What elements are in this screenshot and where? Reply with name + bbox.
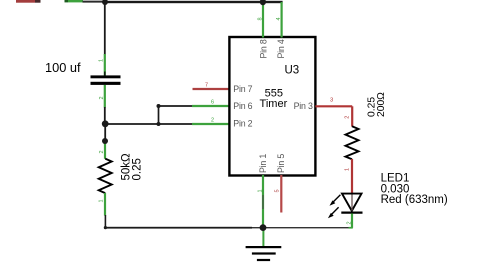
svg-text:0.25: 0.25 [131,158,143,180]
label U3 [285,64,300,76]
wire: bottom rail left [105,227,252,229]
value label 0.25 200Ω (rotated) [366,92,387,117]
pin number 7 [205,83,208,89]
svg-text:2: 2 [99,96,105,99]
pin number 1 of R2 (rotated) [344,168,350,171]
pin number 1 of R1 [98,199,104,202]
svg-text:Pin 2: Pin 2 [233,119,252,129]
svg-text:1: 1 [98,59,104,62]
svg-text:2: 2 [99,150,105,153]
LED cathode bar [341,212,362,214]
pin label Pin 2 [233,119,252,129]
pin number 1 [257,189,263,192]
pin label Pin 5 (rotated) [276,154,286,173]
svg-text:Pin 1: Pin 1 [258,154,268,173]
U3 pin 2 leg (green) [192,123,229,125]
svg-text:4: 4 [276,17,282,20]
svg-text:7: 7 [205,83,208,89]
node: ground junction [260,224,267,231]
pin number 5 [275,189,281,192]
wire: top-left red stub (cut off) [16,0,41,3]
pin label Pin 8 (rotated) [258,39,268,58]
pin label Pin 7 [233,84,252,94]
pin number 2 of R2 (rotated) [344,116,350,119]
svg-text:Pin 4: Pin 4 [276,39,286,58]
pin number 2 of R1 [99,150,105,153]
svg-text:Pin 6: Pin 6 [233,101,252,111]
wire: top power rail [104,1,283,3]
op-amp/IC U3 box [229,37,315,176]
svg-text:Pin 3: Pin 3 [294,101,313,111]
svg-text:2: 2 [211,118,214,124]
pin number 6 [211,100,214,106]
svg-text:Pin 5: Pin 5 [276,154,286,173]
U3 pin 5 leg (red, bottom, unconnected) [280,175,282,213]
pin label Pin 4 (rotated) [276,39,286,58]
pin number 4 [276,17,282,20]
resistor R1 pin 1 leg (green) [104,193,106,216]
wire: junction A to resistor top [104,124,106,141]
U3 pin 3 leg / wire to R2 (red) [315,106,352,126]
pin number 2 of capacitor [99,96,105,99]
U3 pin 8 leg (green, top) [262,2,264,38]
wire: vertical bend up at x158.5 [158,106,160,124]
pin label Pin 3 [294,101,313,111]
capacitor pin stubs (dark) [104,72,106,90]
value label 100 uf [45,60,81,75]
pin number 1 of capacitor [98,59,104,62]
ground symbol [246,228,282,262]
capacitor C pin 2 leg (green) [104,85,106,108]
wire: green tip into LED leg [349,227,353,229]
pin number 3 [330,98,333,104]
svg-text:6: 6 [211,100,214,106]
svg-text:1: 1 [257,189,263,192]
resistor R1 body (zigzag) [99,159,112,194]
node: bend dot upper [157,104,161,108]
U3 pin 6 leg (green) [192,105,229,107]
node: bottom-left corner [104,226,107,229]
LED LED1 triangle [342,194,362,211]
svg-text:3: 3 [330,98,333,104]
node: junction top-left [102,0,108,5]
wire: top rail left segment [83,1,106,3]
pin number 2 of LED (rotated) [346,221,352,224]
U3 pin 7 leg (red, unconnected) [193,88,230,90]
node: junction A (cap / resistor / pins 2-6 net) [102,120,109,127]
svg-text:Timer: Timer [260,98,288,110]
svg-text:5: 5 [275,189,281,192]
capacitor C pin 1 leg (green) [104,54,106,76]
svg-text:Red (633nm): Red (633nm) [381,194,448,206]
wire: capacitor to junction black [104,107,106,124]
node: bend dot lower [157,122,161,126]
wire: horizontal net to pin2/pin6 [105,123,193,125]
svg-text:U3: U3 [285,64,300,76]
svg-text:Pin 7: Pin 7 [233,84,252,94]
resistor R2 body (zigzag) [346,126,359,159]
wire: bottom rail middle thin [252,227,263,228]
label LED1 0.030 Red (633nm) [381,173,448,206]
node: junction top-right [260,0,266,5]
capacitor C1 plates [91,75,121,85]
value label 50kΩ 0.25 (rotated) [120,153,143,181]
wire: capacitor branch upper black [104,2,106,55]
wire: horizontal to pin 6 [159,105,194,107]
svg-text:100 uf: 100 uf [45,60,81,75]
LED emission arrows [328,195,341,219]
U3 pin 1 leg (green, bottom) [262,175,264,228]
LED pin 2 leg (green) [351,214,353,228]
label 555 Timer [260,88,288,110]
svg-text:Pin 8: Pin 8 [258,39,268,58]
svg-text:2: 2 [346,221,352,224]
pin label Pin 6 [233,101,252,111]
pin number 8 [258,17,264,20]
pin label Pin 1 (rotated) [258,154,268,173]
wire: R2 to LED anode (red) [351,159,353,193]
wire: top-left green stub (cut off) [65,0,84,2]
svg-text:1: 1 [344,168,350,171]
svg-text:2: 2 [344,116,350,119]
wire: bottom rail right to LED [263,227,349,228]
node: junction resistor top [102,138,108,144]
svg-text:200Ω: 200Ω [376,92,387,117]
U3 pin 4 leg (green, top) [281,2,283,38]
wire: R1 down to bottom rail [104,215,106,228]
resistor R1 pin 2 leg (green) [104,141,106,159]
pin number 2 [211,118,214,124]
svg-text:1: 1 [98,199,104,202]
svg-text:8: 8 [258,17,264,20]
